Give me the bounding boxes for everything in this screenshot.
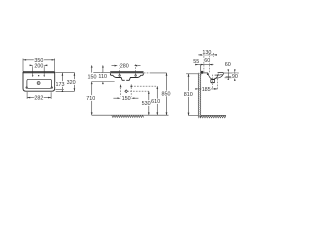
svg-text:90: 90 xyxy=(232,74,238,80)
svg-text:850: 850 xyxy=(162,92,171,98)
svg-text:150: 150 xyxy=(122,96,131,102)
svg-text:710: 710 xyxy=(86,96,95,102)
svg-text:810: 810 xyxy=(184,92,193,98)
svg-text:150: 150 xyxy=(88,74,97,80)
svg-text:130: 130 xyxy=(202,50,211,56)
svg-text:55: 55 xyxy=(193,59,199,65)
svg-text:610: 610 xyxy=(151,99,160,105)
svg-text:60: 60 xyxy=(225,62,231,68)
svg-text:280: 280 xyxy=(120,64,129,70)
svg-text:110: 110 xyxy=(98,74,107,80)
svg-text:320: 320 xyxy=(67,80,76,86)
svg-text:173: 173 xyxy=(56,82,65,88)
svg-text:282: 282 xyxy=(34,95,43,101)
svg-text:185: 185 xyxy=(202,87,211,93)
svg-text:200: 200 xyxy=(34,63,43,69)
svg-text:60: 60 xyxy=(204,58,210,64)
svg-text:530: 530 xyxy=(142,101,151,107)
